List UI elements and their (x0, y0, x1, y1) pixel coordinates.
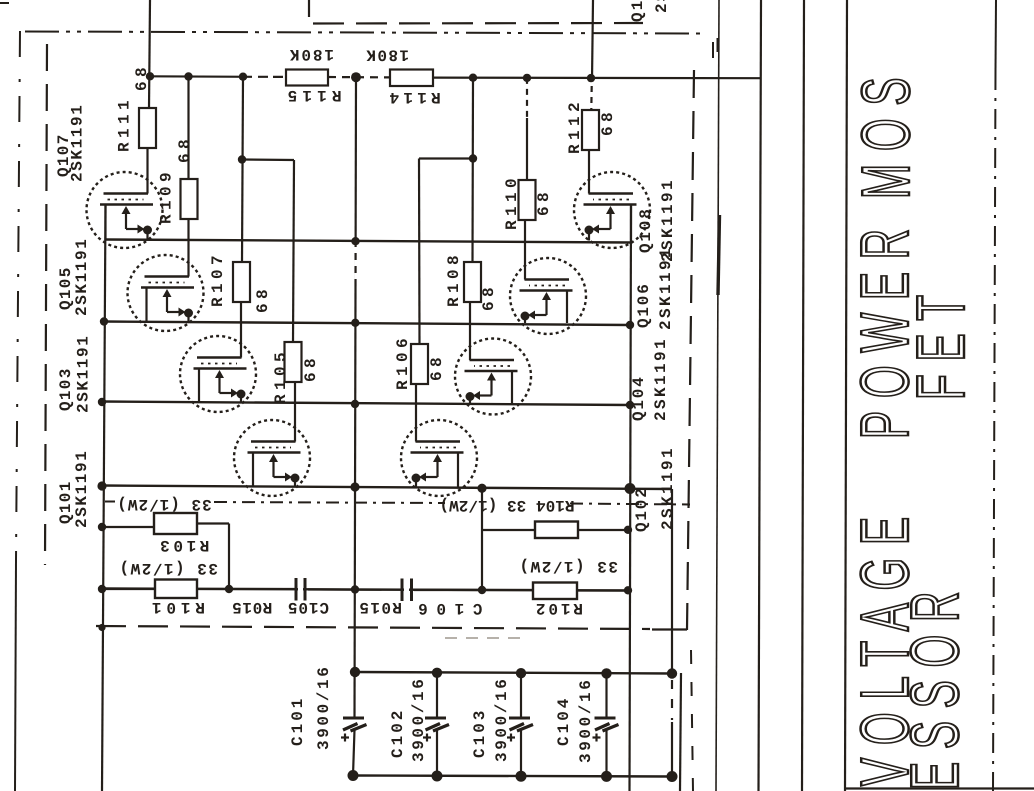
svg-text:2SK1191: 2SK1191 (657, 246, 675, 330)
svg-text:C101: C101 (289, 696, 307, 746)
svg-text:2SK1191: 2SK1191 (659, 446, 677, 530)
svg-text:2SK1191: 2SK1191 (73, 450, 91, 528)
svg-text:33 (1/2W): 33 (1/2W) (116, 495, 211, 513)
svg-text:C106: C106 (410, 599, 483, 617)
svg-text:R109: R109 (158, 168, 176, 224)
svg-text:2SK1191: 2SK1191 (69, 104, 87, 182)
svg-text:FET: FET (903, 282, 979, 400)
svg-text:2S: 2S (653, 0, 671, 13)
svg-text:Q1: Q1 (629, 0, 647, 22)
svg-text:Q108: Q108 (637, 207, 655, 253)
svg-text:Q104: Q104 (630, 375, 648, 421)
svg-text:68: 68 (254, 285, 272, 313)
svg-text:R107: R107 (209, 251, 227, 307)
svg-text:ESSOR: ESSOR (897, 579, 973, 790)
svg-text:R104 33 (1/2W): R104 33 (1/2W) (439, 496, 574, 514)
svg-text:2SK1191: 2SK1191 (652, 337, 670, 421)
svg-text:68: 68 (302, 354, 320, 382)
svg-text:R111: R111 (116, 96, 134, 152)
svg-text:Q106: Q106 (635, 282, 653, 328)
svg-text:R102: R102 (533, 599, 583, 617)
svg-text:R112: R112 (566, 98, 584, 154)
svg-text:R105: R105 (272, 348, 290, 404)
svg-text:R110: R110 (503, 174, 521, 230)
svg-text:C103: C103 (471, 708, 489, 758)
svg-text:R108: R108 (445, 251, 463, 307)
svg-text:3900/16: 3900/16 (577, 678, 595, 763)
svg-text:C105: C105 (287, 598, 329, 616)
svg-text:C104: C104 (555, 696, 573, 746)
svg-text:3900/16: 3900/16 (493, 677, 511, 762)
svg-text:68: 68 (535, 188, 553, 216)
svg-text:3900/16: 3900/16 (410, 677, 428, 762)
svg-text:R015: R015 (358, 598, 402, 616)
svg-text:180K: 180K (365, 46, 409, 64)
svg-text:R103: R103 (157, 536, 210, 554)
svg-text:R115: R115 (282, 86, 341, 104)
svg-text:68: 68 (428, 353, 446, 381)
svg-text:68: 68 (176, 135, 194, 163)
svg-text:R015: R015 (232, 598, 273, 616)
svg-text:Q103: Q103 (57, 367, 75, 411)
svg-text:MOS: MOS (848, 65, 924, 199)
svg-text:R106: R106 (394, 334, 412, 390)
svg-text:R114: R114 (385, 88, 441, 106)
svg-text:R101: R101 (147, 598, 205, 616)
svg-text:68: 68 (133, 63, 151, 91)
svg-text:68: 68 (480, 283, 498, 311)
svg-text:2SK1191: 2SK1191 (73, 238, 91, 316)
svg-text:C102: C102 (389, 708, 407, 758)
svg-text:33 (1/2W): 33 (1/2W) (118, 559, 218, 577)
svg-text:68: 68 (599, 108, 617, 136)
svg-text:180K: 180K (288, 45, 334, 63)
svg-text:3900/16: 3900/16 (315, 665, 333, 750)
svg-text:33 (1/2W): 33 (1/2W) (518, 557, 618, 575)
svg-text:Q102: Q102 (633, 486, 651, 532)
svg-text:2SK1191: 2SK1191 (75, 335, 93, 413)
